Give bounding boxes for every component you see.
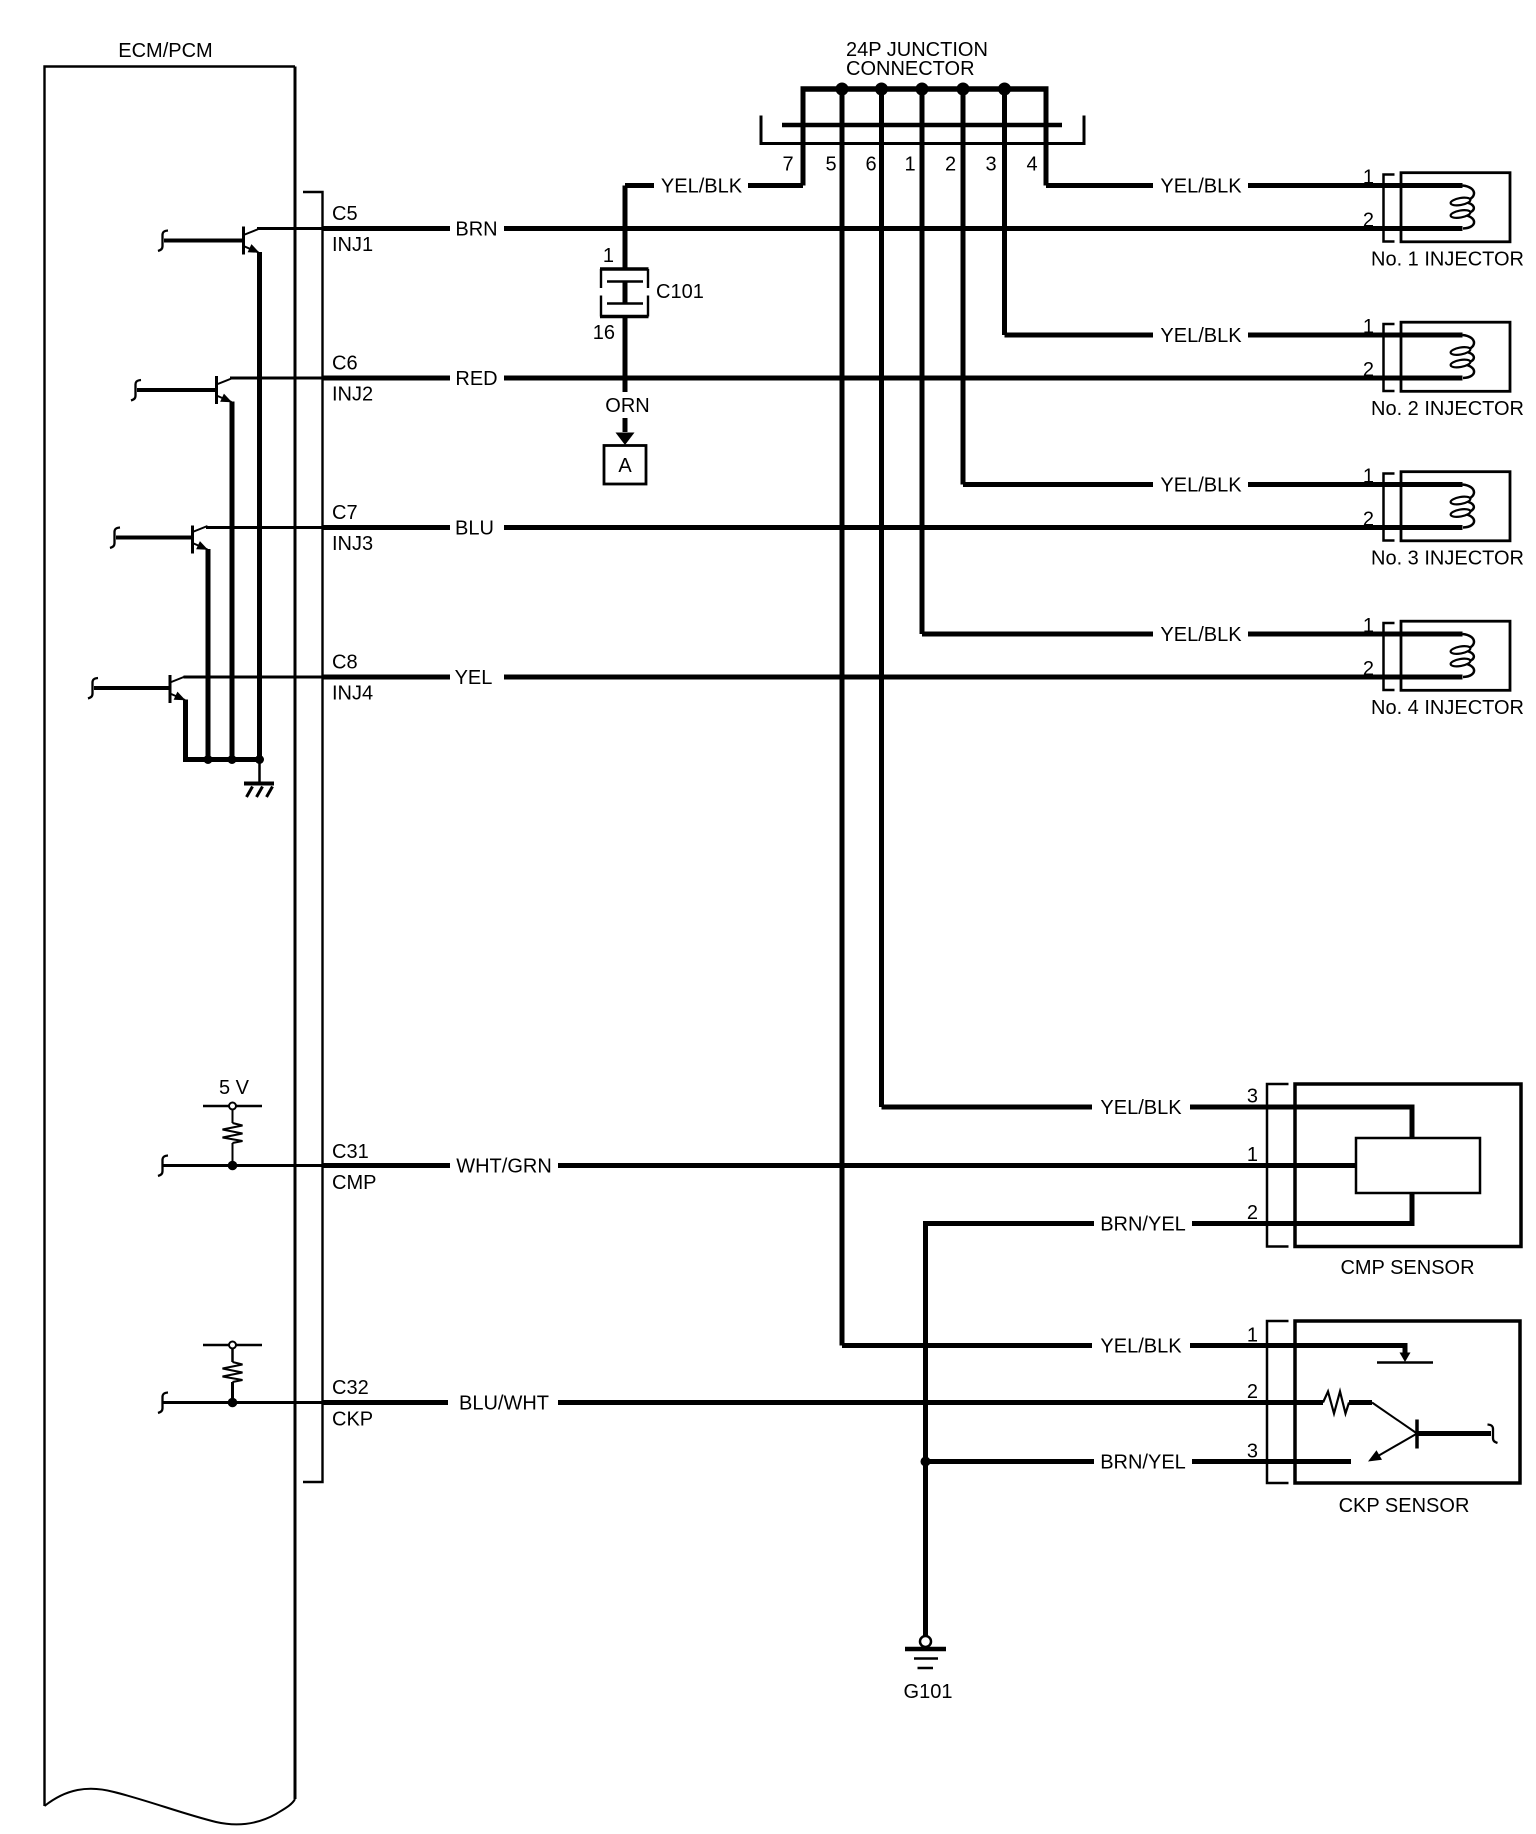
node C32 pull-up junction: [228, 1398, 238, 1408]
transistor Q3: [191, 526, 194, 554]
svg-text:G101: G101: [904, 1681, 953, 1703]
transistor Q1: [242, 227, 245, 255]
wire YEL/BLK to injector 3 pin 1: [963, 482, 1463, 487]
svg-text:No. 3 INJECTOR: No. 3 INJECTOR: [1371, 548, 1524, 570]
svg-text:YEL/BLK: YEL/BLK: [1160, 475, 1242, 497]
connector C101 body: [600, 267, 649, 271]
svg-text:2: 2: [1363, 210, 1374, 232]
ECM connector bracket: [303, 192, 323, 1482]
node 5V terminal circle: [229, 1103, 236, 1110]
node bus dot pin 3: [998, 83, 1011, 96]
connector C101 terminal plates: [607, 280, 643, 282]
svg-text:3: 3: [1247, 1441, 1258, 1463]
wire RED C6 to injector 2 pin 2: [323, 376, 1463, 381]
node emitter junction T3: [204, 755, 213, 764]
wire junction pin 7 leg: [801, 89, 806, 186]
svg-text:C8: C8: [332, 652, 358, 674]
injector 1 box: [1401, 173, 1510, 242]
svg-text:6: 6: [865, 154, 876, 176]
svg-text:1: 1: [904, 154, 915, 176]
svg-text:3: 3: [985, 154, 996, 176]
wire Q1 collector stub: [257, 227, 323, 230]
CMP sensor box: [1295, 1084, 1521, 1247]
svg-text:1: 1: [603, 245, 614, 267]
injector 2 box: [1401, 322, 1510, 391]
svg-text:ORN: ORN: [605, 395, 649, 417]
wire to internal ground: [258, 760, 261, 783]
svg-text:2: 2: [1247, 1202, 1258, 1224]
ECM/PCM box U1: [45, 67, 296, 1807]
svg-text:YEL/BLK: YEL/BLK: [1100, 1336, 1182, 1358]
wire 5V to resistor: [232, 1110, 234, 1124]
wire continuation squiggle T1: [158, 231, 168, 252]
24P junction connector housing bottom: [761, 142, 1084, 145]
svg-text:BRN/YEL: BRN/YEL: [1100, 1214, 1186, 1236]
wire CMP YEL/BLK pin 3: [882, 1107, 1413, 1138]
node emitter junction T1: [255, 755, 264, 764]
wire Q3 emitter: [206, 549, 211, 760]
svg-text:5 V: 5 V: [219, 1077, 250, 1099]
24P junction connector housing top: [782, 123, 1062, 128]
node bus dot pin 2: [957, 83, 970, 96]
CMP sensor connector bracket: [1267, 1084, 1289, 1247]
wire Q1 emitter: [257, 252, 262, 760]
resistor R2 pull-up CKP rail: [203, 1344, 262, 1347]
svg-text:INJ2: INJ2: [332, 384, 373, 406]
svg-text:CKP SENSOR: CKP SENSOR: [1339, 1495, 1470, 1517]
node CKP ground junction: [921, 1457, 931, 1467]
svg-text:YEL/BLK: YEL/BLK: [661, 176, 743, 198]
24P junction connector housing left tick: [760, 116, 763, 146]
svg-text:2: 2: [1247, 1381, 1258, 1403]
node C31 pull-up junction: [228, 1161, 238, 1171]
svg-text:2: 2: [1363, 658, 1374, 680]
arrow to A: [616, 433, 635, 446]
svg-text:BLU/WHT: BLU/WHT: [459, 1393, 549, 1415]
wire junction pin 3 vertical to injector 2: [1002, 89, 1007, 335]
wire Q4 collector stub: [184, 676, 323, 679]
svg-text:INJ1: INJ1: [332, 234, 373, 256]
svg-text:No. 2 INJECTOR: No. 2 INJECTOR: [1371, 398, 1524, 420]
transistor Q2 base lead: [137, 388, 217, 392]
svg-text:1: 1: [1363, 615, 1374, 637]
svg-text:BLU: BLU: [455, 518, 494, 540]
transistor Q1 base lead: [164, 239, 244, 243]
wire rail to resistor R2: [231, 1349, 234, 1363]
svg-text:C5: C5: [332, 203, 358, 225]
svg-text:C7: C7: [332, 502, 358, 524]
ground internal ECM: [244, 782, 274, 786]
svg-text:INJ3: INJ3: [332, 533, 373, 555]
svg-text:5: 5: [825, 154, 836, 176]
svg-text:16: 16: [593, 322, 615, 344]
resistor R1 zigzag: [223, 1123, 243, 1143]
wire continuation squiggle C32: [158, 1393, 168, 1414]
svg-text:RED: RED: [455, 368, 497, 390]
wire junction pin 1 vertical to injector 4: [920, 89, 925, 634]
injector 3 coil: [1462, 485, 1475, 528]
svg-text:YEL/BLK: YEL/BLK: [1160, 624, 1242, 646]
CKP pickup upper diagonal: [1372, 1403, 1417, 1434]
CKP sensor box: [1295, 1321, 1520, 1483]
injector 4 coil: [1462, 634, 1475, 677]
ground G101 circle: [920, 1636, 931, 1647]
wire resistor R2 to C32 node: [231, 1382, 234, 1403]
svg-text:CMP: CMP: [332, 1172, 376, 1194]
wire YEL/BLK to injector 2 pin 1: [1005, 333, 1463, 338]
wire Q2 emitter: [230, 402, 235, 760]
transistor Q3 base lead: [116, 536, 193, 540]
node bus dot pin 5: [836, 83, 849, 96]
node bus dot pin 6: [875, 83, 888, 96]
svg-text:CMP SENSOR: CMP SENSOR: [1340, 1257, 1474, 1279]
injector 1 coil: [1462, 186, 1475, 229]
svg-text:YEL/BLK: YEL/BLK: [1100, 1097, 1182, 1119]
svg-text:WHT/GRN: WHT/GRN: [456, 1156, 552, 1178]
svg-text:A: A: [618, 455, 632, 477]
svg-text:7: 7: [782, 154, 793, 176]
svg-text:2: 2: [945, 154, 956, 176]
injector 2 coil: [1462, 335, 1475, 378]
wire C31 row left segment: [163, 1164, 323, 1167]
wire WHT/GRN C31 to CMP pin 1: [323, 1163, 1357, 1168]
node A destination box: [604, 446, 646, 485]
24P junction connector bus bar: [801, 86, 1049, 92]
wire YEL/BLK pin7 to C101: [625, 183, 803, 188]
wire junction pin 6 vertical to CMP: [879, 89, 884, 1107]
wire continuation squiggle T4: [88, 678, 98, 699]
wire C101 vertical YEL/BLK pin 1: [623, 186, 628, 270]
svg-text:YEL: YEL: [455, 667, 493, 689]
wire continuation squiggle T3: [110, 528, 120, 549]
injector 3 connector bracket: [1384, 474, 1395, 541]
wire YEL C8 to injector 4 pin 2: [323, 675, 1463, 680]
svg-text:C32: C32: [332, 1377, 369, 1399]
wire junction pin 4 leg: [1044, 89, 1049, 186]
svg-text:ECM/PCM: ECM/PCM: [118, 40, 212, 62]
transistor Q4 base lead: [94, 686, 170, 690]
wire junction pin 2 vertical to injector 3: [961, 89, 966, 485]
svg-text:C31: C31: [332, 1141, 369, 1163]
CKP magnet core bar: [1415, 1420, 1419, 1449]
wire C32 row left segment: [163, 1401, 323, 1404]
wire Q4 emitter: [183, 700, 188, 760]
wire continuation squiggle C31: [158, 1156, 168, 1177]
svg-text:BRN: BRN: [455, 219, 497, 241]
svg-text:C6: C6: [332, 353, 358, 375]
svg-text:1: 1: [1363, 466, 1374, 488]
wire YEL/BLK pin4 to injector 1 pin 1: [1046, 183, 1463, 188]
wire resistor to C31 node: [232, 1143, 234, 1166]
wire BLU/WHT C32 to CKP pin 2: [323, 1400, 1324, 1405]
wire C101 pin 16 to ORN arrow: [623, 316, 628, 432]
CKP sensor connector bracket: [1267, 1321, 1289, 1483]
injector 4 box: [1401, 621, 1510, 690]
resistor R1 pull-up 5V rail: [203, 1105, 262, 1108]
svg-text:1: 1: [1247, 1144, 1258, 1166]
svg-text:3: 3: [1247, 1086, 1258, 1108]
wire junction pin 5 vertical to CKP: [840, 89, 845, 1346]
wire BLU C7 to injector 3 pin 2: [323, 525, 1463, 530]
svg-text:1: 1: [1363, 167, 1374, 189]
wire CKP coil to pickup: [1349, 1400, 1372, 1405]
svg-text:No. 1 INJECTOR: No. 1 INJECTOR: [1371, 249, 1524, 271]
svg-text:1: 1: [1363, 316, 1374, 338]
node emitter junction T2: [228, 755, 237, 764]
injector 4 connector bracket: [1384, 623, 1395, 690]
wire continuation squiggle CKP: [1488, 1425, 1498, 1444]
transistor Q2: [215, 376, 218, 404]
injector 1 connector bracket: [1384, 175, 1395, 242]
wire Q3 collector stub: [206, 526, 323, 529]
ground G101 bars: [905, 1647, 946, 1652]
svg-text:YEL/BLK: YEL/BLK: [1160, 176, 1242, 198]
svg-text:C101: C101: [656, 281, 704, 303]
svg-text:YEL/BLK: YEL/BLK: [1160, 325, 1242, 347]
injector 3 box: [1401, 472, 1510, 541]
injector 2 connector bracket: [1384, 324, 1395, 391]
svg-text:INJ4: INJ4: [332, 683, 373, 705]
wire continuation squiggle T2: [131, 380, 141, 401]
svg-text:BRN/YEL: BRN/YEL: [1100, 1452, 1186, 1474]
svg-text:1: 1: [1247, 1325, 1258, 1347]
wire Q2 collector stub: [230, 377, 323, 380]
CKP coil resistor: [1323, 1392, 1349, 1414]
CKP pickup lower diagonal: [1378, 1434, 1417, 1457]
transistor Q4: [169, 675, 172, 703]
CMP sensor element: [1356, 1138, 1480, 1193]
svg-text:CKP: CKP: [332, 1409, 373, 1431]
wire YEL/BLK to injector 4 pin 1: [922, 632, 1463, 637]
wire emitter common bus: [183, 757, 262, 762]
resistor R2 zigzag: [223, 1362, 243, 1382]
wire CKP YEL/BLK pin 1: [842, 1346, 1405, 1355]
wire CKP core output: [1417, 1431, 1491, 1436]
label gaps (white): [448, 175, 1248, 1472]
24P junction connector housing right tick: [1083, 116, 1086, 146]
svg-text:2: 2: [1363, 359, 1374, 381]
CKP pickup arrowhead: [1368, 1450, 1382, 1461]
CKP shield bar: [1377, 1361, 1433, 1364]
svg-text:CONNECTOR: CONNECTOR: [846, 58, 975, 80]
svg-text:No. 4 INJECTOR: No. 4 INJECTOR: [1371, 697, 1524, 719]
wire CMP BRN/YEL pin 2 and ground run: [926, 1193, 1413, 1637]
CKP shield termination arrow: [1400, 1353, 1411, 1363]
node R2 terminal circle: [229, 1342, 236, 1349]
node bus dot pin 1: [916, 83, 929, 96]
svg-text:2: 2: [1363, 509, 1374, 531]
svg-text:4: 4: [1026, 154, 1037, 176]
wire CKP BRN/YEL pin 3: [926, 1459, 1352, 1464]
wire BRN C5 to injector 1 pin 2: [323, 226, 1463, 231]
